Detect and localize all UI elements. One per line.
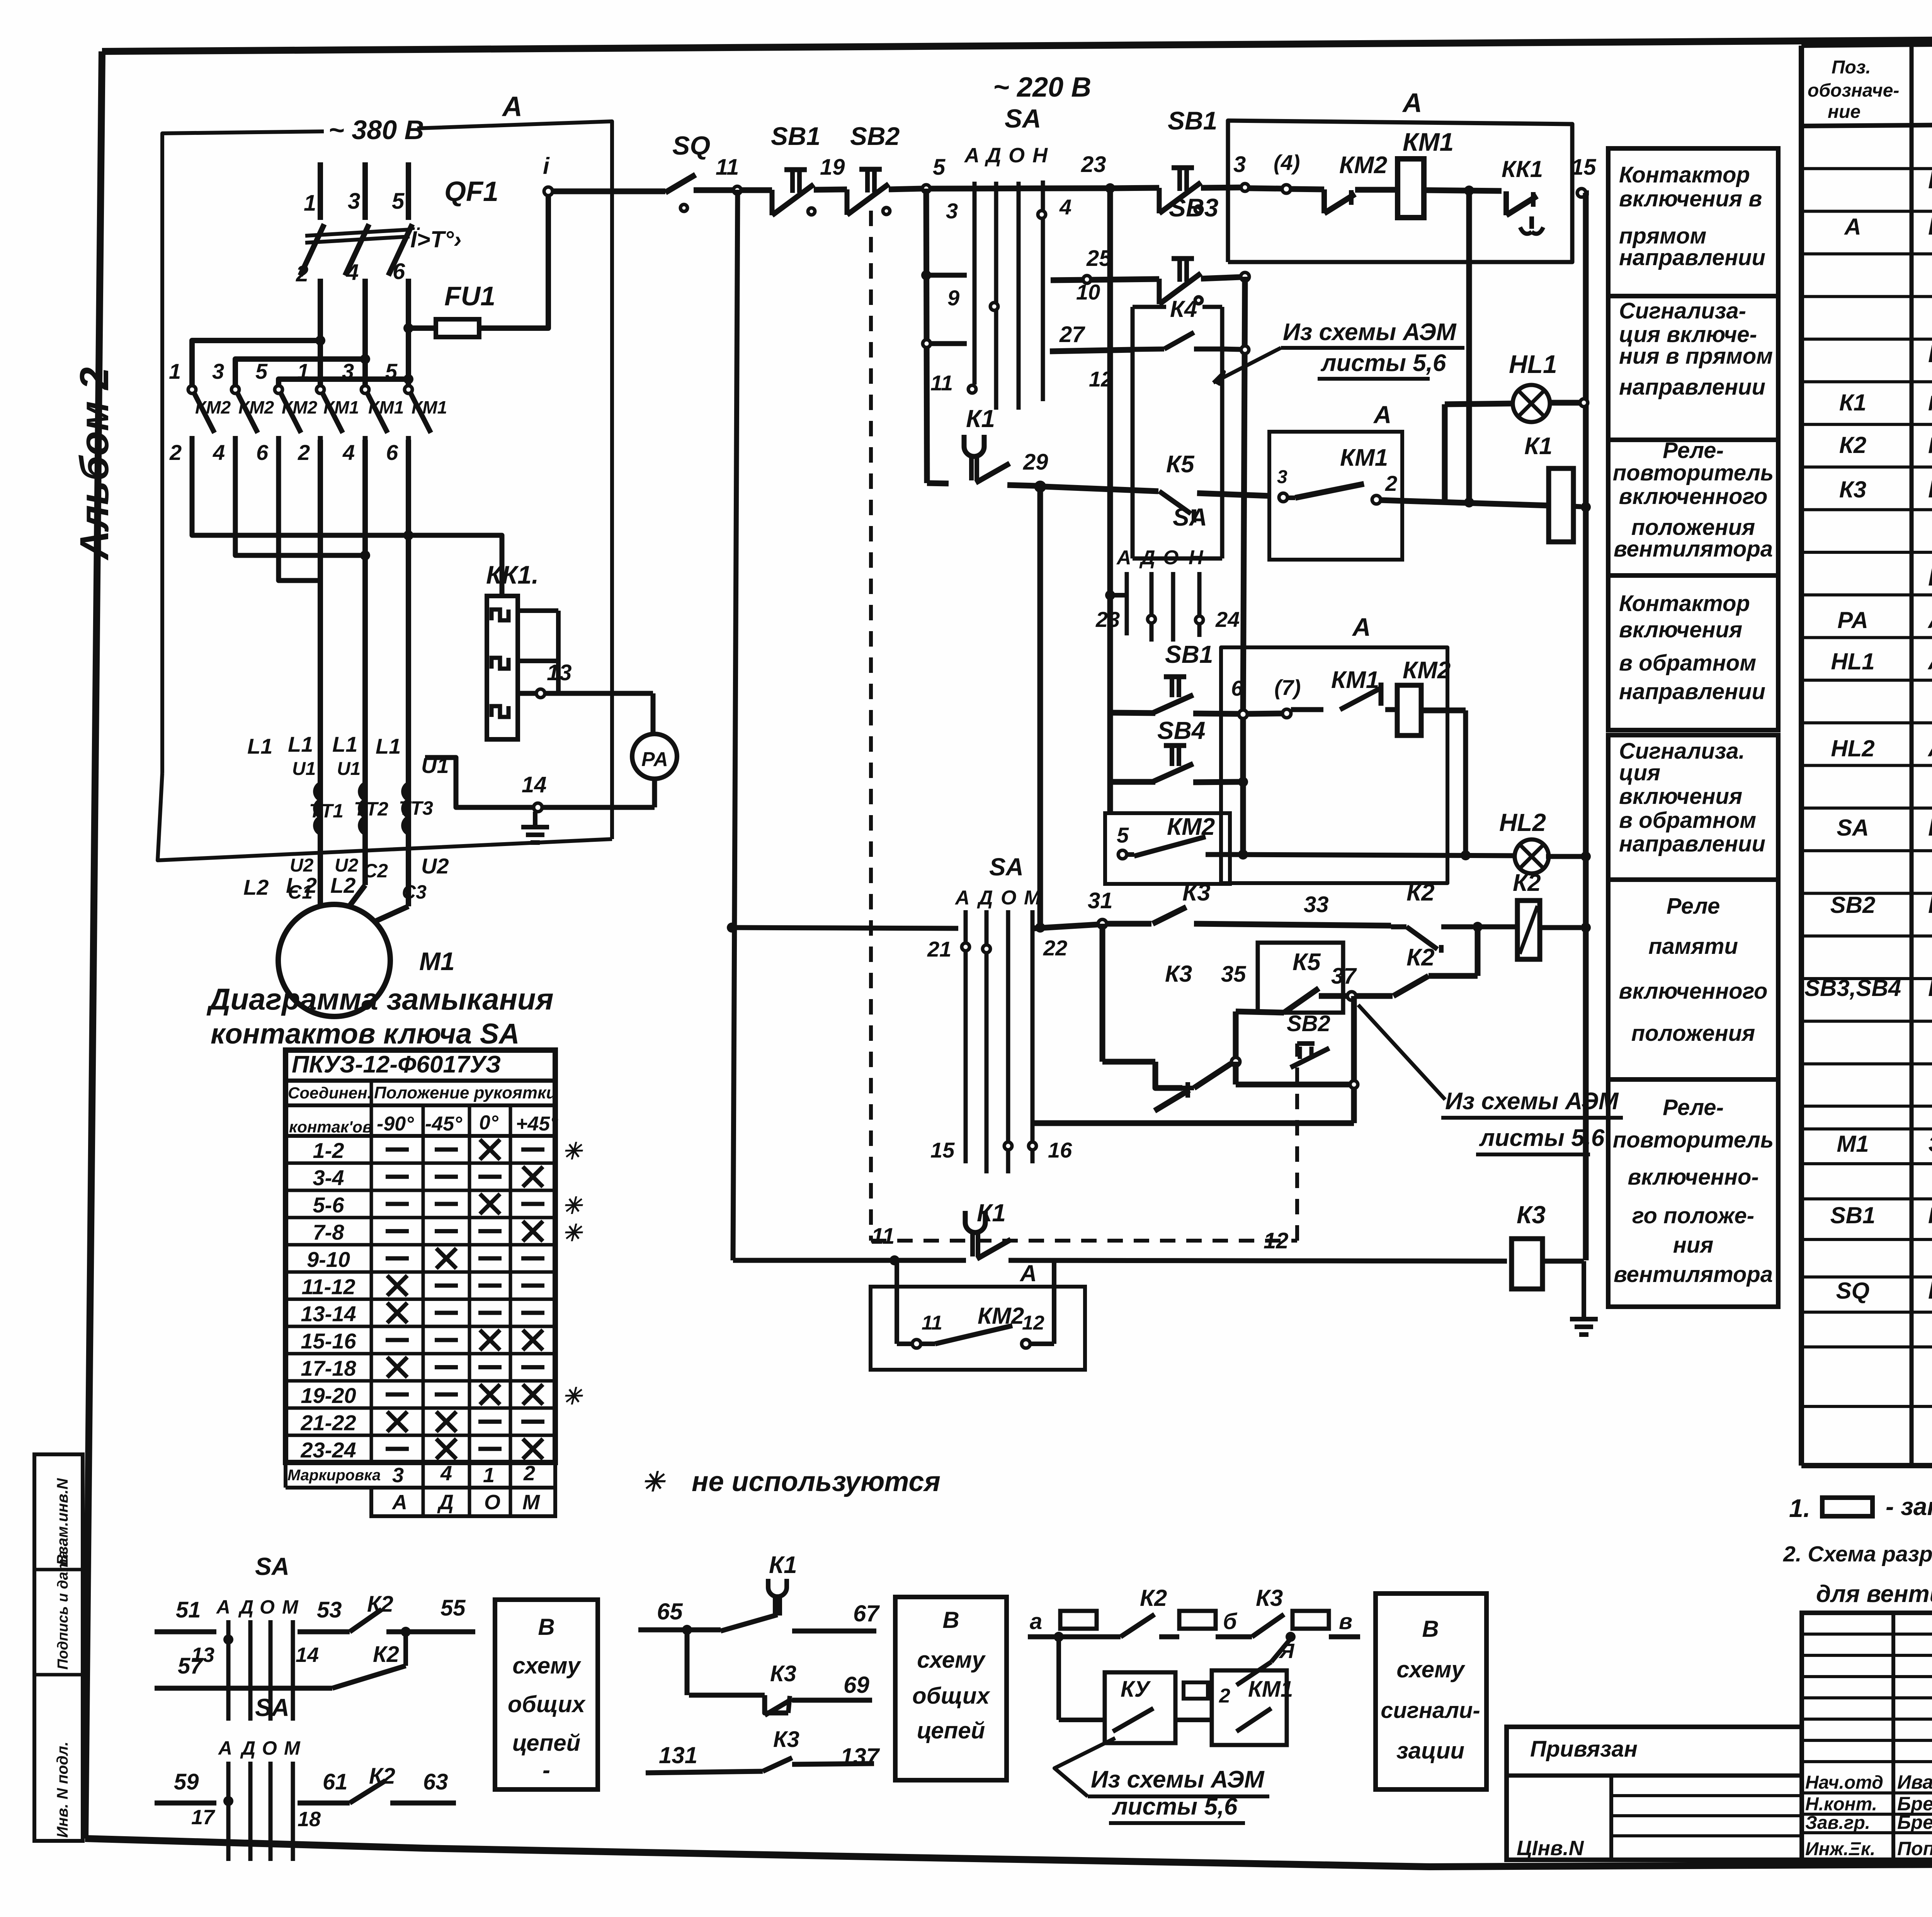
- svg-text:9-10: 9-10: [307, 1247, 350, 1272]
- crossover wiring KM2/KM1 to motor feeds: [192, 440, 408, 535]
- svg-text:FU1: FU1: [444, 281, 495, 311]
- svg-text:Реле РПУ2-М962УОУЗБ, ~220: Реле РПУ2-М962УОУЗБ, ~220В,: [1928, 475, 1932, 503]
- svg-text:Положение рукоятки: Положение рукоятки: [374, 1083, 556, 1102]
- svg-text:SB1: SB1: [1168, 106, 1217, 135]
- svg-text:U1: U1: [292, 759, 316, 779]
- svg-text:К1: К1: [1524, 433, 1553, 460]
- parts list table: [1799, 46, 1804, 1466]
- svg-text:Н.конт.: Н.конт.: [1805, 1794, 1877, 1815]
- svg-text:16: 16: [1048, 1138, 1072, 1162]
- svg-text:59: 59: [174, 1769, 199, 1794]
- svg-text:(4): (4): [1274, 150, 1300, 175]
- svg-text:контактов ключа SА: контактов ключа SА: [211, 1018, 520, 1050]
- panel A enclosure box: [162, 131, 324, 773]
- main feed wire row1: [553, 189, 663, 194]
- node 23: [1105, 183, 1115, 193]
- bottom long wire row (K1 contact, 12, K3 coil): [733, 1258, 895, 1263]
- svg-text:Инж.Ξк.: Инж.Ξк.: [1805, 1839, 1875, 1859]
- button SB1 second: [1172, 165, 1194, 170]
- right return bus: [1583, 193, 1589, 1260]
- svg-text:М1: М1: [419, 947, 455, 976]
- svg-text:Ї>T°›: Ї>T°›: [410, 226, 461, 252]
- svg-text:КМ1: КМ1: [1331, 667, 1379, 693]
- svg-text:обозначе-: обозначе-: [1808, 80, 1899, 101]
- svg-text:Переключатель универсальный: Переключатель универсальный: [1928, 813, 1932, 841]
- svg-text:2: 2: [169, 440, 182, 465]
- svg-text:21: 21: [927, 937, 951, 961]
- svg-text:3: 3: [212, 359, 224, 383]
- button SB1: [784, 167, 807, 172]
- svg-text:1: 1: [169, 359, 181, 383]
- svg-text:22: 22: [1043, 936, 1067, 960]
- svg-text:1.: 1.: [1789, 1494, 1810, 1522]
- KM1 box: [1212, 1670, 1287, 1745]
- svg-text:КМ2: КМ2: [195, 397, 231, 417]
- svg-text:Из схемы АЭМ: Из схемы АЭМ: [1283, 319, 1457, 346]
- svg-text:L1: L1: [376, 734, 401, 758]
- svg-text:положения: положения: [1631, 1021, 1755, 1046]
- svg-text:SB2: SB2: [1830, 892, 1876, 918]
- svg-text:цепей: цепей: [917, 1718, 985, 1743]
- svg-text:Реле РП12 УХЛЧ,~220В; ТУ16-523: Реле РП12 УХЛЧ,~220В; ТУ16-523.072-75: [1928, 433, 1932, 458]
- svg-text:К1: К1: [769, 1552, 797, 1578]
- svg-text:✳: ✳: [641, 1467, 666, 1497]
- svg-text:Привязан: Привязан: [1530, 1737, 1638, 1762]
- memory lower branch: [1100, 924, 1105, 1062]
- svg-text:SB4: SB4: [1157, 717, 1206, 744]
- function box 4: [1608, 575, 1778, 730]
- svg-text:в обратном: в обратном: [1619, 808, 1756, 833]
- svg-text:Д: Д: [238, 1596, 253, 1618]
- svg-text:ние: ние: [1828, 102, 1861, 122]
- svg-text:Из схемы АЭМ: Из схемы АЭМ: [1445, 1088, 1619, 1115]
- svg-text:КК1: КК1: [1502, 156, 1543, 182]
- svg-text:КМ1: КМ1: [323, 397, 359, 417]
- svg-text:U1: U1: [337, 759, 361, 779]
- K5 repeat contact box: [1258, 943, 1343, 1013]
- left bus from node 11 down: [733, 190, 738, 1260]
- svg-text:1: 1: [483, 1464, 495, 1487]
- svg-text:131: 131: [659, 1742, 697, 1768]
- svg-text:2: 2: [1219, 1685, 1230, 1707]
- svg-text:18: 18: [298, 1808, 321, 1831]
- svg-text:листы 5,6: листы 5,6: [1320, 350, 1446, 376]
- svg-text:55: 55: [440, 1595, 466, 1621]
- svg-text:1-2: 1-2: [313, 1138, 344, 1163]
- svg-text:✳: ✳: [562, 1383, 583, 1409]
- svg-text:31: 31: [1088, 888, 1113, 913]
- svg-text:- заполняется при привязке: - заполняется при привязке проекта.: [1886, 1493, 1932, 1520]
- svg-text:11: 11: [930, 371, 953, 395]
- svg-text:М: М: [522, 1491, 540, 1514]
- svg-text:2: 2: [296, 261, 308, 286]
- svg-text:L2: L2: [330, 873, 355, 897]
- to-signal-circuits box: [1376, 1594, 1486, 1789]
- svg-text:4: 4: [1059, 195, 1071, 219]
- svg-text:О: О: [1163, 546, 1179, 569]
- svg-text:57: 57: [178, 1653, 204, 1679]
- svg-text:13-14: 13-14: [301, 1302, 356, 1326]
- ground at end: [1582, 1261, 1586, 1319]
- svg-text:SB3: SB3: [1169, 193, 1218, 222]
- svg-text:Выключатель ВП21-21Б211-55У2.1: Выключатель ВП21-21Б211-55У2.1: [1928, 1276, 1932, 1304]
- svg-text:включенного: включенного: [1619, 484, 1768, 509]
- svg-text:13: 13: [547, 660, 572, 685]
- function box 7: [1608, 1079, 1778, 1307]
- svg-text:5: 5: [933, 155, 946, 180]
- svg-text:Инв. N подл.: Инв. N подл.: [54, 1742, 71, 1838]
- svg-text:В: В: [538, 1614, 554, 1640]
- svg-text:Реле РП18-91-УХЛЧ,-220В,ТУ16-6: Реле РП18-91-УХЛЧ,-220В,ТУ16-647,003-84: [1928, 391, 1932, 415]
- svg-text:Панель управления и сигнализац: Панель управления и сигнализации: [1928, 563, 1932, 591]
- svg-text:КМ1: КМ1: [1248, 1677, 1293, 1702]
- svg-text:К2: К2: [1140, 1585, 1167, 1611]
- svg-text:67: 67: [853, 1600, 880, 1626]
- svg-text:О: О: [1009, 144, 1025, 167]
- svg-text:6: 6: [393, 259, 405, 284]
- KU box: [1056, 1637, 1061, 1720]
- svg-text:А: А: [954, 887, 970, 909]
- svg-text:Контактор: Контактор: [1619, 591, 1750, 616]
- svg-text:Н: Н: [1032, 144, 1048, 167]
- svg-text:Контактор: Контактор: [1619, 162, 1750, 187]
- svg-text:53: 53: [317, 1597, 342, 1622]
- svg-text:51: 51: [176, 1597, 201, 1622]
- memory relay row K2: [727, 923, 737, 933]
- reverse row box A: [1221, 647, 1447, 883]
- svg-text:29: 29: [1023, 449, 1048, 475]
- svg-text:К2: К2: [1406, 879, 1435, 906]
- svg-text:15: 15: [930, 1138, 955, 1162]
- svg-text:SB1: SB1: [1165, 640, 1213, 668]
- svg-text:Альбом 2: Альбом 2: [72, 367, 117, 561]
- svg-text:SB2: SB2: [1287, 1011, 1330, 1036]
- svg-text:К3: К3: [1182, 879, 1211, 906]
- svg-text:цепей: цепей: [512, 1730, 581, 1756]
- svg-text:Реле-: Реле-: [1663, 438, 1724, 463]
- svg-text:ния в прямом: ния в прямом: [1619, 344, 1773, 369]
- svg-text:ция: ция: [1619, 760, 1660, 785]
- node 31: [1098, 919, 1107, 928]
- svg-text:4: 4: [213, 440, 225, 465]
- svg-text:для вентиляторов N: для вентиляторов N: [1816, 1581, 1932, 1607]
- svg-text:3-4: 3-4: [313, 1166, 344, 1190]
- svg-text:А: А: [1019, 1260, 1037, 1286]
- svg-text:SQ: SQ: [672, 131, 710, 160]
- svg-text:2: 2: [298, 440, 310, 465]
- svg-text:схему: схему: [1396, 1657, 1465, 1682]
- wire node29 down to memory row: [1037, 483, 1043, 928]
- svg-text:М: М: [282, 1596, 299, 1618]
- svg-text:+45°: +45°: [516, 1113, 558, 1135]
- svg-text:-90°: -90°: [377, 1113, 414, 1135]
- node 5: [922, 185, 930, 192]
- svg-text:23-24: 23-24: [300, 1438, 356, 1462]
- svg-text:А: А: [1373, 401, 1391, 429]
- function box 6: [1608, 880, 1778, 1079]
- wire 13 to ammeter: [518, 691, 653, 696]
- vertical feed row1 to K1 row: [1466, 191, 1472, 502]
- svg-text:листы 5,6: листы 5,6: [1479, 1125, 1605, 1151]
- svg-text:37: 37: [1331, 964, 1357, 989]
- svg-text:КК1.: КК1.: [486, 560, 539, 589]
- svg-text:2: 2: [523, 1462, 535, 1485]
- svg-text:0°: 0°: [479, 1112, 499, 1134]
- svg-text:повторитель: повторитель: [1613, 460, 1774, 485]
- svg-text:1: 1: [304, 191, 316, 216]
- svg-text:SQ: SQ: [1836, 1278, 1870, 1304]
- svg-text:1: 1: [297, 359, 309, 383]
- svg-text:65: 65: [657, 1599, 683, 1624]
- svg-text:SB1: SB1: [1830, 1202, 1876, 1228]
- svg-text:К1: К1: [966, 405, 995, 432]
- to-common-circuits box 1: [495, 1600, 598, 1789]
- K1 relay row: [927, 483, 949, 484]
- svg-text:Д: Д: [1139, 546, 1155, 569]
- svg-text:КМ2: КМ2: [978, 1303, 1024, 1329]
- button SB2: [859, 167, 882, 172]
- svg-text:25: 25: [1086, 246, 1112, 271]
- svg-text:направлении: направлении: [1619, 831, 1765, 856]
- svg-text:Д: Д: [985, 144, 1001, 167]
- svg-text:А: А: [216, 1596, 230, 1618]
- svg-text:17-18: 17-18: [301, 1356, 356, 1381]
- svg-text:15: 15: [1571, 155, 1596, 180]
- svg-text:-45°: -45°: [425, 1113, 463, 1135]
- svg-text:SA: SA: [1005, 104, 1041, 133]
- svg-text:направлении: направлении: [1619, 375, 1765, 400]
- svg-text:О: О: [1001, 887, 1016, 909]
- left stamp column: [34, 1454, 83, 1841]
- svg-text:U2: U2: [421, 854, 449, 878]
- svg-text:~ 380 В: ~ 380 В: [328, 115, 424, 145]
- table grid rows: [1801, 167, 1932, 170]
- svg-text:QF1: QF1: [444, 176, 498, 207]
- svg-text:L2: L2: [243, 875, 269, 899]
- svg-text:а: а: [1030, 1609, 1042, 1634]
- KM2 aux contact for HL2: [1105, 813, 1230, 884]
- svg-text:15-16: 15-16: [301, 1329, 356, 1353]
- svg-text:17: 17: [191, 1806, 216, 1829]
- svg-text:Панель управления П5430-: Панель управления П5430-: [1928, 212, 1932, 240]
- svg-text:в обратном: в обратном: [1619, 650, 1756, 676]
- node 11: [733, 186, 741, 194]
- svg-text:повторитель: повторитель: [1613, 1127, 1774, 1153]
- svg-text:ПКУЗ-12-Ф6017УЗ: ПКУЗ-12-Ф6017УЗ: [292, 1051, 501, 1078]
- svg-text:Реле: Реле: [1667, 894, 1720, 919]
- svg-text:5: 5: [385, 359, 398, 383]
- svg-text:24: 24: [1215, 607, 1240, 632]
- svg-text:К3: К3: [770, 1661, 796, 1686]
- svg-text:12: 12: [1264, 1228, 1289, 1253]
- svg-text:включения в: включения в: [1619, 186, 1762, 211]
- svg-text:Выключатель КЕ011УЗ исп.: Выключатель КЕ011УЗ исп. 2: [1928, 890, 1932, 918]
- svg-text:3: 3: [348, 189, 360, 214]
- svg-text:зации: зации: [1396, 1738, 1464, 1764]
- svg-text:В: В: [1422, 1616, 1439, 1642]
- svg-text:А: А: [1402, 88, 1422, 118]
- svg-text:Диаграмма замыкания: Диаграмма замыкания: [206, 982, 554, 1016]
- svg-text:Поз.: Поз.: [1832, 57, 1871, 78]
- svg-text:4: 4: [342, 440, 355, 465]
- circuit breaker QF1: [318, 162, 323, 220]
- svg-text:Поплавская: Поплавская: [1897, 1838, 1932, 1859]
- node 3: [1241, 184, 1249, 191]
- svg-text:схему: схему: [917, 1647, 986, 1673]
- svg-text:К2: К2: [1406, 944, 1435, 971]
- binding stamp box: [1507, 1727, 1802, 1860]
- svg-text:2. Схема разработано для ве: 2. Схема разработано для вентиляторо N: [1783, 1542, 1932, 1566]
- svg-text:КМ2: КМ2: [1403, 657, 1451, 684]
- svg-text:✳: ✳: [562, 1220, 583, 1246]
- svg-text:21-22: 21-22: [300, 1410, 356, 1435]
- svg-text:11: 11: [716, 155, 739, 180]
- svg-text:SА: SА: [255, 1694, 289, 1721]
- HL2 branch: [1230, 855, 1515, 856]
- function box 5: [1608, 735, 1778, 880]
- svg-text:L1: L1: [288, 732, 313, 756]
- svg-text:О: О: [260, 1596, 275, 1618]
- svg-text:L1: L1: [332, 732, 357, 756]
- svg-text:SA: SA: [1173, 503, 1207, 531]
- svg-text:К3: К3: [1165, 961, 1192, 987]
- svg-text:А: А: [391, 1491, 407, 1514]
- svg-text:Подпись и дата: Подпись и дата: [55, 1551, 71, 1670]
- svg-text:б: б: [1223, 1609, 1238, 1634]
- svg-text:14: 14: [296, 1643, 319, 1667]
- svg-text:КУ: КУ: [1121, 1677, 1151, 1702]
- svg-text:общих: общих: [508, 1691, 586, 1717]
- svg-text:сигнали-: сигнали-: [1381, 1698, 1480, 1723]
- table header: [1801, 120, 1932, 126]
- svg-text:РА: РА: [641, 748, 668, 771]
- svg-text:ТТ2: ТТ2: [354, 798, 388, 820]
- svg-text:включенно-: включенно-: [1628, 1165, 1759, 1190]
- wire 14 and ground: [425, 758, 655, 807]
- current transformers TT1 TT2 TT3: [315, 784, 320, 799]
- svg-text:го положе-: го положе-: [1632, 1203, 1754, 1228]
- svg-text:РА: РА: [1837, 607, 1868, 633]
- svg-text:4: 4: [440, 1462, 452, 1485]
- svg-text:М: М: [1024, 887, 1041, 909]
- svg-text:М: М: [284, 1737, 301, 1759]
- relay box A row1: KM2 aux, KM1 coil, KK1 aux: [1228, 121, 1572, 262]
- svg-text:памяти: памяти: [1648, 934, 1738, 959]
- KM1 aux box A: [1269, 432, 1402, 560]
- svg-text:Из схемы АЭМ: Из схемы АЭМ: [1091, 1766, 1265, 1793]
- bus from node 5 down: [926, 189, 927, 483]
- svg-text:3: 3: [1277, 467, 1287, 487]
- svg-text:А: А: [502, 91, 522, 122]
- svg-text:11-12: 11-12: [301, 1274, 355, 1299]
- svg-text:11: 11: [922, 1312, 942, 1334]
- svg-text:HL1: HL1: [1509, 350, 1557, 378]
- svg-text:U1: U1: [421, 753, 449, 778]
- svg-text:включения: включения: [1619, 617, 1742, 642]
- svg-text:Электродвигатель ВАСО15-23-34: Электродвигатель ВАСО15-23-34 У1: [1928, 1132, 1932, 1157]
- svg-text:схему: схему: [512, 1653, 581, 1679]
- svg-text:~ 220 В: ~ 220 В: [993, 72, 1091, 103]
- svg-text:К3: К3: [1256, 1585, 1283, 1611]
- ammeter PA: [632, 734, 677, 779]
- svg-text:С3: С3: [402, 881, 427, 903]
- svg-text:ТТ1: ТТ1: [309, 800, 344, 822]
- svg-text:включенного: включенного: [1619, 979, 1768, 1004]
- svg-text:SB1: SB1: [771, 122, 820, 150]
- svg-text:КМ2: КМ2: [1167, 814, 1215, 840]
- svg-text:О: О: [484, 1491, 500, 1514]
- svg-text:6: 6: [1231, 676, 1243, 700]
- svg-text:4: 4: [346, 260, 359, 285]
- svg-text:не используются: не используются: [692, 1466, 940, 1497]
- svg-text:С1: С1: [288, 881, 313, 903]
- wire down from SB3: [1243, 277, 1245, 714]
- to-common-circuits box 2: [895, 1597, 1007, 1780]
- svg-text:К1: К1: [977, 1199, 1006, 1227]
- svg-text:К4: К4: [1170, 296, 1197, 322]
- jog wires QF1 to KM2 contacts: [192, 340, 320, 386]
- svg-text:Иваненко: Иваненко: [1897, 1771, 1932, 1793]
- svg-text:SA: SA: [989, 853, 1024, 881]
- svg-text:листы 5,6: листы 5,6: [1112, 1793, 1238, 1820]
- svg-text:Панель автоматики.: Панель автоматики.: [1928, 340, 1932, 368]
- svg-text:вентилятора: вентилятора: [1614, 1262, 1773, 1287]
- contact diagram table: [286, 1050, 555, 1462]
- svg-text:SA: SA: [1837, 815, 1869, 841]
- svg-text:Соединен.: Соединен.: [288, 1084, 372, 1102]
- svg-text:5: 5: [255, 359, 268, 383]
- svg-text:А: А: [218, 1737, 232, 1759]
- svg-text:К5: К5: [1166, 451, 1195, 478]
- svg-text:SB3,SB4: SB3,SB4: [1804, 975, 1901, 1001]
- svg-text:3: 3: [392, 1464, 404, 1487]
- svg-text:23: 23: [1095, 607, 1120, 632]
- svg-text:Маркировка: Маркировка: [287, 1467, 381, 1484]
- function box 3: [1608, 440, 1778, 575]
- svg-text:-: -: [543, 1757, 550, 1783]
- HL1 branch: [1442, 404, 1448, 501]
- svg-text:HL2: HL2: [1831, 735, 1874, 761]
- svg-text:Щит станций управления.: Щит станций управления.: [1928, 166, 1932, 194]
- svg-text:А: А: [1844, 214, 1861, 240]
- svg-text:Реле-: Реле-: [1663, 1095, 1724, 1120]
- svg-text:Арматура светосигнальная: Арматура светосигнальная: [1927, 647, 1932, 675]
- svg-text:Бреслов: Бреслов: [1897, 1811, 1932, 1833]
- svg-text:К2: К2: [1839, 432, 1866, 458]
- svg-text:Н: Н: [1189, 546, 1204, 569]
- svg-text:Д: Д: [240, 1737, 255, 1759]
- svg-text:3: 3: [946, 199, 958, 223]
- svg-text:(7): (7): [1274, 675, 1301, 700]
- motor M1: [318, 843, 323, 906]
- svg-text:11: 11: [871, 1224, 895, 1249]
- svg-text:3: 3: [342, 359, 354, 383]
- svg-text:К3: К3: [1839, 477, 1866, 502]
- svg-text:3: 3: [1233, 152, 1246, 177]
- svg-text:М1: М1: [1837, 1131, 1869, 1157]
- svg-text:Сигнализа-: Сигнализа-: [1619, 298, 1746, 323]
- svg-text:19: 19: [820, 155, 845, 180]
- KM2 seal-in box: [895, 1260, 899, 1344]
- svg-text:О: О: [262, 1737, 277, 1759]
- marking rows: [286, 1486, 555, 1490]
- bus from node 23 down: [1107, 188, 1113, 713]
- svg-text:9: 9: [947, 286, 959, 310]
- svg-text:HL1: HL1: [1831, 649, 1874, 674]
- svg-text:i: i: [543, 153, 550, 179]
- svg-text:27: 27: [1059, 322, 1085, 347]
- svg-text:К3: К3: [773, 1727, 799, 1752]
